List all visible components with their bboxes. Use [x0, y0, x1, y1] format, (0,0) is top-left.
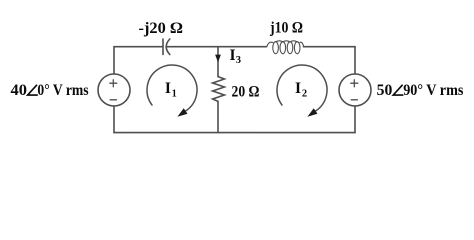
svg-text:I: I [295, 80, 301, 97]
svg-text:0° V rms: 0° V rms [37, 82, 88, 99]
svg-text:3: 3 [236, 55, 241, 66]
svg-text:I: I [230, 47, 236, 64]
svg-text:1: 1 [172, 88, 177, 99]
svg-text:j10 Ω: j10 Ω [269, 19, 303, 36]
svg-text:2: 2 [302, 88, 307, 99]
svg-text:I: I [165, 80, 171, 97]
svg-text:-j20 Ω: -j20 Ω [139, 20, 184, 37]
svg-text:40: 40 [11, 82, 28, 99]
svg-text:50: 50 [377, 82, 393, 99]
svg-text:90° V rms: 90° V rms [403, 82, 463, 99]
svg-text:20 Ω: 20 Ω [232, 83, 260, 100]
